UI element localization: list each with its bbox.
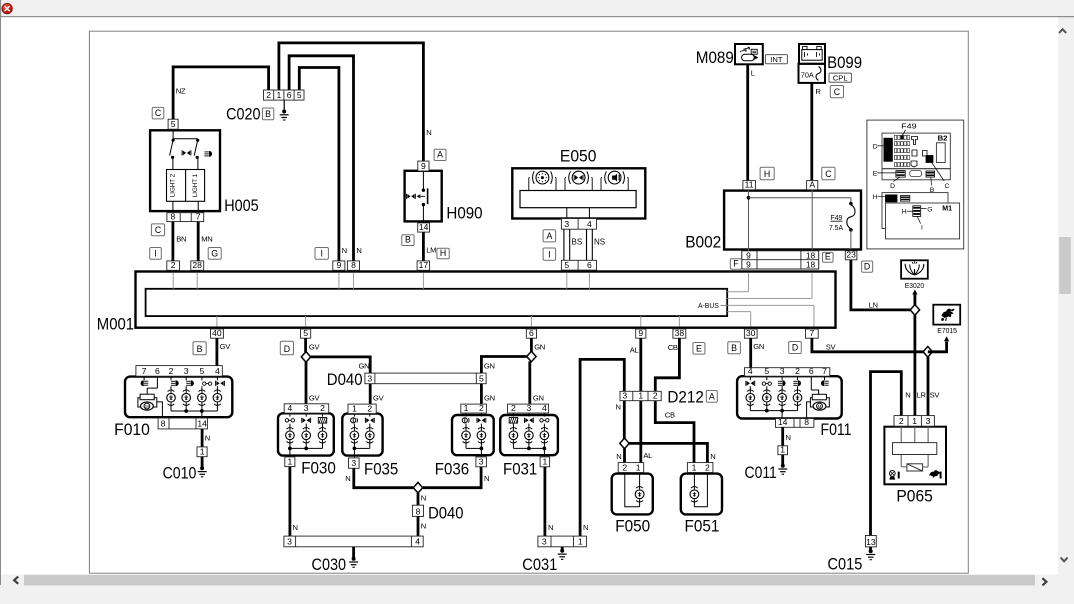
letter box D pin5 <box>280 341 293 355</box>
svg-text:1: 1 <box>912 416 917 426</box>
letter box D wire23 <box>862 261 873 272</box>
wire below pin13 <box>869 547 872 550</box>
svg-text:4: 4 <box>215 366 220 376</box>
svg-text:3: 3 <box>527 403 532 413</box>
wire N D040 pin8 to C030 pin4 <box>417 516 420 536</box>
F031 pin 1 <box>540 457 550 467</box>
svg-text:LM: LM <box>426 246 436 255</box>
letter box A E050 <box>543 230 556 242</box>
svg-text:N: N <box>205 433 210 442</box>
M001 pin 28 <box>191 261 204 270</box>
B002 pin 11 <box>743 181 756 190</box>
letter box C B099 wire <box>822 167 835 180</box>
M001 pin 30 <box>744 329 757 338</box>
letter box C lower left <box>151 224 164 236</box>
label box CPL <box>829 73 851 82</box>
wire SV M001 pin7 to splice <box>812 338 928 352</box>
wire N F010 pin14 to C010 <box>201 429 204 447</box>
inset upper fuses strip <box>896 171 935 178</box>
inset labels upper <box>873 144 950 194</box>
F030 pins 4 3 2 <box>284 404 329 413</box>
svg-text:N: N <box>484 474 489 483</box>
wire N F030 pin1 to C030 pin3 <box>288 467 291 536</box>
connector C020 pins 2 1 6 5 <box>264 90 305 100</box>
svg-text:4: 4 <box>587 219 592 229</box>
svg-text:E: E <box>696 343 702 353</box>
connector strip D212 pins 3 1 2 <box>620 391 661 400</box>
B002 pin A <box>807 181 818 190</box>
svg-text:C: C <box>155 108 162 118</box>
svg-text:GN: GN <box>484 362 495 371</box>
splice diamond LN <box>910 305 919 316</box>
svg-text:LIGHT 2: LIGHT 2 <box>170 173 177 197</box>
B002 output rows 9 18 <box>742 250 819 269</box>
svg-text:CPL: CPL <box>833 74 848 83</box>
wire GN M001 pin6 to splice <box>530 338 533 351</box>
wire N splice to F050 pin2 <box>623 449 626 463</box>
svg-text:LN: LN <box>869 301 878 310</box>
wire N F035 pin3 to splice D040 <box>354 468 414 487</box>
F036 pin 3 <box>476 457 487 467</box>
svg-text:1: 1 <box>277 90 282 100</box>
svg-text:M089: M089 <box>696 48 734 67</box>
svg-text:N: N <box>616 452 621 461</box>
wire CB D212 pin2 to F051 pin1 <box>655 401 694 463</box>
svg-text:2: 2 <box>705 462 710 472</box>
component B099 battery <box>799 44 825 64</box>
P065 pins 2 1 3 <box>894 416 934 427</box>
svg-text:A: A <box>809 180 815 190</box>
svg-text:D: D <box>873 144 878 151</box>
pin 8 D040 <box>412 505 423 516</box>
svg-text:7.5A: 7.5A <box>829 225 843 232</box>
wire CB M001 pin38 to D212 pin2 <box>655 338 679 391</box>
component H005 headlamp <box>150 129 220 211</box>
svg-text:6: 6 <box>287 90 292 100</box>
wire LM H090 pin14 to M001 pin17 <box>422 232 425 261</box>
wire GN M001 pin30 to F011 pin4 <box>749 338 752 368</box>
pin 1 C011 <box>778 446 788 455</box>
M001 pin 6 bottom <box>526 329 536 338</box>
svg-text:2: 2 <box>622 462 627 472</box>
svg-text:3: 3 <box>622 391 627 401</box>
connector C031 pins 3 1 <box>538 536 587 547</box>
splice diamond GN <box>527 351 536 362</box>
svg-text:2: 2 <box>479 403 484 413</box>
F031 pins 2 3 4 <box>508 404 549 413</box>
svg-text:C010: C010 <box>163 463 197 482</box>
component F051 fog lamp <box>681 473 722 515</box>
svg-text:F031: F031 <box>503 459 537 478</box>
component B002 junction unit <box>724 190 861 251</box>
vertical scrollbar <box>1058 18 1074 604</box>
svg-text:E: E <box>825 252 831 262</box>
svg-text:N: N <box>548 523 553 532</box>
svg-text:4: 4 <box>542 403 547 413</box>
svg-text:C020: C020 <box>226 104 260 123</box>
svg-text:GV: GV <box>309 343 321 352</box>
svg-text:1: 1 <box>288 457 293 467</box>
svg-text:13: 13 <box>866 537 876 547</box>
svg-text:L: L <box>751 68 755 77</box>
wire C020 pin6 to M001 pin8 <box>289 56 353 261</box>
wire stub C011 <box>781 455 784 465</box>
svg-text:D212: D212 <box>667 387 703 406</box>
svg-text:14: 14 <box>419 222 429 232</box>
inset fuse grid <box>894 135 945 167</box>
F051 pins 1 2 <box>687 463 713 473</box>
splice diamond SV <box>923 347 932 358</box>
svg-text:5: 5 <box>303 328 308 338</box>
svg-text:1: 1 <box>638 391 643 401</box>
svg-text:38: 38 <box>675 328 685 338</box>
svg-text:D: D <box>890 183 895 190</box>
svg-text:5: 5 <box>479 374 484 384</box>
svg-text:N: N <box>356 246 361 255</box>
svg-text:AL: AL <box>630 345 639 354</box>
svg-text:17: 17 <box>419 260 429 270</box>
svg-text:1: 1 <box>543 457 548 467</box>
svg-text:N: N <box>905 391 910 400</box>
letter box A D212 <box>706 391 717 403</box>
inset lower panel M1 <box>873 193 960 239</box>
svg-text:G: G <box>211 248 218 258</box>
M001 pin 7 bottom <box>806 329 819 338</box>
svg-text:1: 1 <box>780 445 785 455</box>
svg-text:D: D <box>792 343 798 353</box>
svg-text:I: I <box>154 248 156 258</box>
svg-text:N: N <box>710 452 715 461</box>
svg-text:11: 11 <box>745 180 754 190</box>
svg-text:C031: C031 <box>522 555 557 574</box>
svg-text:70A: 70A <box>801 70 814 79</box>
wire arrow to E3020 <box>914 294 917 305</box>
M001 pin 2 <box>167 261 180 270</box>
svg-text:F: F <box>733 258 739 268</box>
component F030 tail lamp <box>278 413 334 457</box>
svg-text:F011: F011 <box>821 420 852 439</box>
svg-text:SV: SV <box>930 391 941 400</box>
svg-text:H090: H090 <box>446 204 482 223</box>
wire GN splice to D040 pin5 <box>481 357 526 374</box>
svg-text:4: 4 <box>415 537 420 547</box>
svg-text:3: 3 <box>542 537 547 547</box>
svg-text:SV: SV <box>826 343 837 352</box>
wire LR splice to P065 pin1 <box>914 315 917 416</box>
svg-text:6: 6 <box>809 366 814 376</box>
ground C030 <box>352 557 356 561</box>
svg-text:D040: D040 <box>327 370 363 389</box>
F010 pins 7 6 2 3 5 4 <box>136 366 222 377</box>
M001 outer box <box>136 272 836 328</box>
svg-text:5: 5 <box>171 119 176 129</box>
svg-text:9: 9 <box>746 259 751 269</box>
wire stub C010 <box>201 457 204 468</box>
svg-text:I: I <box>320 248 322 258</box>
ECU M001 body computer <box>136 272 836 328</box>
svg-text:F035: F035 <box>364 459 398 478</box>
svg-text:C030: C030 <box>312 555 347 574</box>
svg-text:1: 1 <box>464 403 469 413</box>
svg-text:5: 5 <box>297 90 302 100</box>
svg-text:I: I <box>921 224 923 231</box>
svg-text:NZ: NZ <box>176 87 186 96</box>
wire R B099 to B002 pinA <box>810 83 813 180</box>
letter box B C020 <box>262 108 273 120</box>
svg-text:B: B <box>197 344 203 354</box>
letter box E pin38 <box>693 343 705 355</box>
component F050 fog lamp <box>612 473 653 515</box>
svg-text:H: H <box>764 169 770 179</box>
M001 pin 38 <box>673 329 686 338</box>
svg-text:6: 6 <box>587 260 592 270</box>
H090 pin 14 <box>418 223 430 232</box>
svg-text:INT: INT <box>770 55 783 64</box>
svg-text:3: 3 <box>184 366 189 376</box>
svg-text:1: 1 <box>352 403 357 413</box>
svg-text:2: 2 <box>266 90 271 100</box>
M001 inner box <box>146 289 728 316</box>
component P065 relay <box>884 426 946 484</box>
component M089 ignition switch <box>735 44 763 64</box>
M001 internal pin lines <box>173 273 814 327</box>
letter box C B099 upper <box>830 86 843 98</box>
svg-text:2: 2 <box>795 366 800 376</box>
pin 1 C010 <box>197 447 207 457</box>
splice diamond N F050 <box>620 438 629 449</box>
wire N D212 pin3 to splice <box>623 401 626 439</box>
svg-text:D040: D040 <box>428 504 463 523</box>
svg-text:1: 1 <box>636 462 641 472</box>
svg-text:3: 3 <box>564 219 569 229</box>
component F035 tail lamp <box>342 414 382 458</box>
M001 pin 17 <box>417 261 430 270</box>
inset fuse panel locator <box>867 120 964 249</box>
E050 pins 3 4 <box>561 219 596 230</box>
wire GN D040 pin5 to F036 pin2 <box>480 384 483 404</box>
svg-text:6: 6 <box>529 328 534 338</box>
svg-text:BN: BN <box>176 234 186 243</box>
svg-text:F050: F050 <box>615 516 650 535</box>
F036 pins 1 2 <box>461 404 487 413</box>
fuse 70A in B099 <box>799 64 826 83</box>
svg-text:2: 2 <box>169 366 174 376</box>
svg-text:8: 8 <box>804 417 809 427</box>
letter box B H090 <box>402 235 414 246</box>
svg-text:8: 8 <box>416 506 421 516</box>
svg-text:7: 7 <box>822 366 827 376</box>
svg-text:C: C <box>825 169 832 179</box>
wire L M089 to B002 pin11 <box>746 64 749 180</box>
svg-text:18: 18 <box>806 259 816 269</box>
svg-text:F010: F010 <box>114 420 150 439</box>
component F031 tail lamp <box>500 413 558 457</box>
M001 pin 9 bottom <box>636 329 646 338</box>
wire SV splice to P065 pin3 <box>927 357 930 416</box>
svg-text:E7015: E7015 <box>937 326 957 335</box>
svg-text:3: 3 <box>780 366 785 376</box>
F030 pin 1 <box>285 457 295 467</box>
svg-text:E3020: E3020 <box>905 281 924 290</box>
title bar <box>0 0 1074 17</box>
svg-text:AL: AL <box>643 451 652 460</box>
svg-text:C: C <box>945 183 950 190</box>
ground C020 <box>283 100 285 111</box>
wire BN H005 pin8 to M001 pin2 <box>171 222 174 261</box>
component E3020 washer icon box <box>901 260 928 278</box>
svg-text:N: N <box>786 433 791 442</box>
letter box I E050 <box>543 248 556 260</box>
window bottom strip <box>0 586 1074 604</box>
F050 pins 2 1 <box>618 463 644 473</box>
svg-text:H005: H005 <box>224 196 259 215</box>
svg-text:1: 1 <box>692 462 697 472</box>
svg-text:M: M <box>818 404 822 409</box>
letter box I pin9 <box>315 248 328 260</box>
wire arrow to E7015 <box>928 342 947 352</box>
svg-text:B: B <box>731 343 737 353</box>
svg-text:A: A <box>437 150 443 160</box>
wire GN splice to F031 pin3 <box>528 361 531 404</box>
svg-text:7: 7 <box>810 328 815 338</box>
svg-text:H: H <box>902 209 907 216</box>
component E7015 bird icon box <box>933 305 960 325</box>
letter box B pin30 <box>728 342 741 354</box>
ground C011 <box>781 464 785 468</box>
horizontal scrollbar <box>1 575 1057 586</box>
svg-text:8: 8 <box>351 260 356 270</box>
wire N F011 pin14 to C011 <box>781 427 784 446</box>
M001 pin 9 top <box>333 261 345 270</box>
svg-text:A-BUS: A-BUS <box>698 303 719 310</box>
svg-text:M: M <box>145 404 149 409</box>
svg-text:2: 2 <box>320 403 325 413</box>
svg-text:GV: GV <box>220 342 232 351</box>
svg-text:14: 14 <box>778 417 788 427</box>
svg-text:2: 2 <box>653 391 658 401</box>
H090 pin 9 <box>418 161 429 171</box>
svg-text:23: 23 <box>846 250 856 260</box>
svg-text:5: 5 <box>200 366 205 376</box>
svg-text:LIGHT 1: LIGHT 1 <box>192 173 199 197</box>
svg-text:B099: B099 <box>827 53 862 72</box>
pin 13 C015 <box>865 536 876 547</box>
letter box H M089 wire <box>760 167 774 180</box>
svg-text:F49: F49 <box>901 124 917 131</box>
component E050 instrument cluster <box>512 168 645 218</box>
svg-text:H: H <box>440 248 446 258</box>
svg-text:H: H <box>873 194 878 201</box>
diagram page <box>89 31 968 573</box>
F010 pins 8 14 <box>158 418 207 429</box>
svg-text:C011: C011 <box>745 463 777 482</box>
svg-text:3: 3 <box>926 416 931 426</box>
wire N splice to D040 pin8 <box>417 493 420 505</box>
svg-text:D: D <box>864 261 870 271</box>
svg-text:N: N <box>426 128 431 137</box>
wire N F036 pin3 to splice D040 <box>423 467 481 488</box>
svg-text:F030: F030 <box>301 458 336 477</box>
wire LN B002 pin23 to splice <box>851 260 915 310</box>
svg-text:E: E <box>873 171 878 178</box>
wire GV M001 pin40 to F010 pin4 <box>215 338 218 365</box>
svg-text:GV: GV <box>373 393 385 402</box>
svg-text:C: C <box>155 225 162 235</box>
svg-text:B: B <box>405 235 411 245</box>
svg-text:8: 8 <box>161 419 166 429</box>
M001 pin 40 <box>211 329 224 338</box>
component H090 switch <box>405 170 442 223</box>
wire AL M001 pin9 to F050 pin1 <box>639 338 642 462</box>
svg-text:7: 7 <box>196 211 201 221</box>
svg-text:30: 30 <box>746 328 756 338</box>
svg-text:CB: CB <box>668 343 678 352</box>
wire GV M001 pin5 to splice <box>304 338 307 352</box>
letter box G <box>208 248 221 260</box>
ground C031 <box>560 549 564 553</box>
wire N splice to F051 pin2 <box>629 443 707 462</box>
wire MN H005 pin7 to M001 pin28 <box>197 222 200 261</box>
M001 pin 5 bottom <box>301 329 311 338</box>
svg-text:2: 2 <box>899 416 904 426</box>
svg-text:F051: F051 <box>685 516 720 535</box>
F011 pins 14 8 <box>776 419 814 428</box>
svg-text:3: 3 <box>351 458 356 468</box>
svg-text:B: B <box>265 109 271 119</box>
svg-text:8: 8 <box>171 211 176 221</box>
letter box E B002 <box>823 252 834 262</box>
svg-text:9: 9 <box>337 260 342 270</box>
svg-text:N: N <box>293 523 298 532</box>
svg-text:A: A <box>546 231 552 241</box>
svg-text:I: I <box>548 249 550 259</box>
E050 pins 5 6 at bus <box>561 260 596 270</box>
wire N P065 pin2 to C015 <box>871 372 902 536</box>
svg-text:1: 1 <box>200 447 205 457</box>
twin wire BS <box>563 229 565 260</box>
svg-text:40: 40 <box>212 328 222 338</box>
letter box I left <box>150 248 162 260</box>
component F036 tail lamp <box>452 413 494 457</box>
F035 pin 3 <box>349 458 360 468</box>
svg-text:9: 9 <box>421 161 426 171</box>
svg-text:GN: GN <box>534 343 545 352</box>
svg-text:A: A <box>709 391 715 401</box>
svg-text:3: 3 <box>367 374 372 384</box>
svg-text:3: 3 <box>287 537 292 547</box>
svg-text:N: N <box>421 494 426 503</box>
letter box H H090 <box>437 248 449 259</box>
svg-text:3: 3 <box>304 403 309 413</box>
svg-text:28: 28 <box>192 260 202 270</box>
svg-text:N: N <box>616 402 621 411</box>
F035 pins 1 2 <box>348 404 376 414</box>
svg-text:GV: GV <box>309 393 321 402</box>
svg-text:M1: M1 <box>942 204 952 213</box>
svg-text:1: 1 <box>578 537 583 547</box>
ground C015 <box>869 549 873 553</box>
svg-text:C015: C015 <box>828 555 863 574</box>
svg-text:2: 2 <box>367 403 372 413</box>
svg-text:N: N <box>421 521 426 530</box>
svg-text:F49: F49 <box>831 215 843 222</box>
svg-text:B2: B2 <box>938 133 948 142</box>
wire GV splice to F030 pin3 <box>305 362 308 404</box>
svg-text:5: 5 <box>764 366 769 376</box>
svg-text:NS: NS <box>594 237 605 246</box>
connector strip D040 pins 3 5 <box>365 373 486 384</box>
svg-text:M001: M001 <box>97 315 134 334</box>
